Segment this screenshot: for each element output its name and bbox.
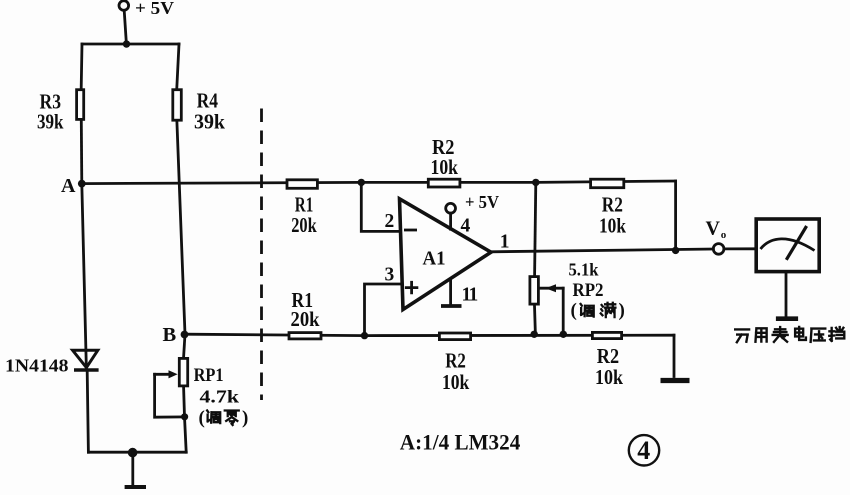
svg-text:1: 1 (500, 231, 510, 252)
label R1 20k (top) (291, 192, 317, 237)
resistor R3 (77, 90, 84, 120)
ground (meter) (776, 316, 798, 321)
resistor R1 (top, 20k) (287, 180, 317, 189)
svg-text:): ) (619, 300, 625, 321)
caption A:1/4 LM324 (400, 430, 521, 455)
resistor R2 (feedback left, 10k) (428, 179, 460, 187)
resistor R2 (bottom right, 10k) (592, 332, 621, 338)
svg-text:R2: R2 (445, 349, 466, 373)
svg-text:1N4148: 1N4148 (5, 356, 69, 376)
minus sign pin2 (405, 229, 415, 232)
potentiometer RP2 vertical wire from node X (535, 182, 536, 275)
figure number circled 4 (629, 435, 659, 465)
wire top rail (82, 43, 179, 46)
junction output node (672, 247, 679, 254)
svg-text:3: 3 (385, 265, 395, 286)
svg-text:39k: 39k (37, 109, 64, 133)
svg-text:RP2: RP2 (573, 280, 604, 301)
svg-text:10k: 10k (431, 155, 459, 179)
junction pin2 node (358, 179, 365, 186)
pin 4 power terminal +5V (446, 192, 499, 237)
wire R4 down to node B (crosses A line, no connection) (177, 122, 185, 335)
wire B line (bottom signal rail) (185, 334, 674, 335)
svg-text:39k: 39k (194, 110, 225, 134)
label R3 39k (37, 89, 64, 133)
plus sign pin3 (406, 282, 417, 293)
svg-text:2: 2 (385, 211, 395, 232)
svg-text:B: B (163, 324, 177, 346)
label RP2 5.1k (569, 260, 604, 302)
svg-text:+ 5V: + 5V (135, 0, 174, 18)
wire R4 branch upper (177, 44, 179, 88)
svg-text:(: ( (199, 408, 205, 429)
wire meter to ground (785, 272, 788, 317)
dashed separator line (260, 109, 263, 401)
svg-text:4: 4 (637, 436, 650, 465)
wire B to RP1 top (184, 334, 185, 357)
svg-text:RP1: RP1 (194, 365, 224, 386)
resistor R2 (bottom middle, 10k) (439, 333, 470, 340)
svg-text:A1: A1 (423, 248, 446, 270)
potentiometer RP1 body 4.7k (179, 358, 187, 386)
power terminal +5V (top) (119, 0, 174, 18)
svg-text:10k: 10k (595, 365, 623, 389)
label R2 10k (feedback right) (599, 192, 626, 237)
svg-text:+ 5V: + 5V (465, 192, 499, 212)
wire RP1 bottom (184, 387, 187, 452)
svg-text:V: V (706, 218, 721, 240)
wire R3 branch upper (80, 44, 84, 88)
potentiometer RP2 body 5.1k (530, 277, 539, 305)
junction RP1 wiper tie (181, 413, 188, 420)
junction bottom rail (128, 448, 138, 458)
meter (multimeter voltage range) (756, 219, 819, 272)
ground (bottom left) (125, 453, 146, 487)
svg-text:20k: 20k (291, 307, 320, 331)
node B (163, 324, 189, 346)
wire bottom rail (88, 451, 186, 454)
diode 1N4148 (73, 350, 99, 370)
svg-text:5.1k: 5.1k (569, 260, 599, 280)
label R2 10k (bottom middle) (442, 349, 470, 395)
RP2 wiper arrow (541, 284, 564, 334)
junction top rail (123, 40, 130, 47)
svg-text:1: 1 (469, 285, 479, 306)
svg-text:4.7k: 4.7k (200, 387, 240, 407)
svg-text:A:1/4 LM324: A:1/4 LM324 (400, 430, 521, 455)
RP1 wiper arrow (155, 370, 185, 417)
wire R3 to node A (80, 121, 83, 184)
svg-text:o: o (721, 229, 727, 241)
node A (61, 175, 86, 197)
resistor R1 (bottom, 20k) (289, 333, 321, 339)
label 1N4148 (5, 356, 69, 376)
wire RP2 body bottom to B rail (533, 306, 537, 335)
label (调满) full-scale adjust (571, 300, 625, 321)
output terminal Vo (706, 218, 727, 255)
svg-text:10k: 10k (442, 370, 470, 394)
label RP1 4.7k (194, 365, 239, 407)
label (调零) zero adjust (199, 408, 249, 429)
svg-text:20k: 20k (291, 213, 317, 237)
label R2 10k (bottom right) (595, 344, 623, 389)
junction node X (feedback tee) (532, 179, 539, 186)
resistor R2 (feedback right, 10k) (591, 179, 624, 188)
svg-text:4: 4 (461, 216, 471, 237)
wire from +5V terminal to top rail (124, 10, 126, 44)
wire op-amp pin 3 branch (365, 284, 402, 336)
wire feedback to output (674, 181, 677, 250)
svg-text:(: ( (571, 300, 577, 321)
resistor R4 (173, 90, 182, 121)
label R4 39k (194, 89, 225, 134)
op-amp A1 (400, 199, 492, 310)
wire Vo terminal to meter (724, 247, 756, 250)
ground (bottom right) (661, 378, 690, 383)
label R2 10k (feedback left) (431, 135, 459, 179)
pin 11 ground (441, 280, 478, 307)
label multimeter voltage range (735, 327, 844, 342)
junction RP2 bottom (531, 331, 538, 338)
label R1 20k (bottom) (291, 288, 320, 331)
svg-text:): ) (242, 408, 248, 429)
wire op-amp output (491, 249, 713, 252)
wire A line (top signal rail) (82, 181, 676, 184)
wire node A down to diode (82, 184, 87, 370)
junction pin3 node on B rail (361, 332, 368, 339)
svg-text:10k: 10k (599, 214, 626, 238)
wire diode to bottom rail (87, 372, 88, 453)
junction RP2 wiper (560, 331, 567, 338)
svg-text:A: A (61, 175, 76, 197)
wire bottom right to ground (673, 335, 676, 376)
wire to op-amp pin 2 (361, 182, 399, 231)
